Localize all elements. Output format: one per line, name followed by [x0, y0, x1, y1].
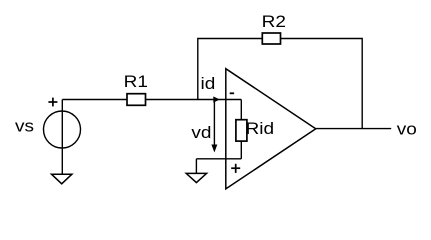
resistor R1	[127, 94, 146, 106]
wire Rid branch bottom	[240, 141, 242, 159]
voltage source VS circle	[44, 111, 81, 148]
wire plus input	[196, 158, 241, 160]
wire R2 to output vertical	[281, 39, 363, 129]
vd arrow	[213, 100, 215, 146]
svg-text:vd: vd	[191, 123, 211, 142]
svg-text:R1: R1	[124, 72, 148, 91]
wire vs vertical through source	[61, 100, 63, 175]
svg-text:vs: vs	[15, 117, 34, 136]
wire feedback left vertical	[198, 39, 262, 100]
id arrow head	[213, 96, 220, 102]
svg-text:Rid: Rid	[246, 119, 275, 138]
wire output	[316, 128, 391, 130]
op-amp U1	[226, 69, 316, 189]
ground under vs	[52, 174, 72, 184]
svg-text:id: id	[201, 74, 216, 93]
plus sign at op-amp non-inverting input	[231, 167, 240, 169]
wire vs to R1	[62, 99, 127, 101]
plus sign at vs source	[48, 101, 57, 103]
minus sign at op-amp inverting input	[230, 92, 234, 94]
resistor R2	[262, 33, 280, 44]
wire Rid branch top	[240, 100, 242, 120]
wire ground stub	[195, 159, 197, 174]
wire R1 to op-amp input node	[146, 99, 242, 101]
svg-text:vo: vo	[397, 120, 417, 139]
ground at plus input	[186, 173, 206, 182]
resistor Rid	[236, 120, 247, 141]
svg-text:R2: R2	[262, 12, 286, 31]
